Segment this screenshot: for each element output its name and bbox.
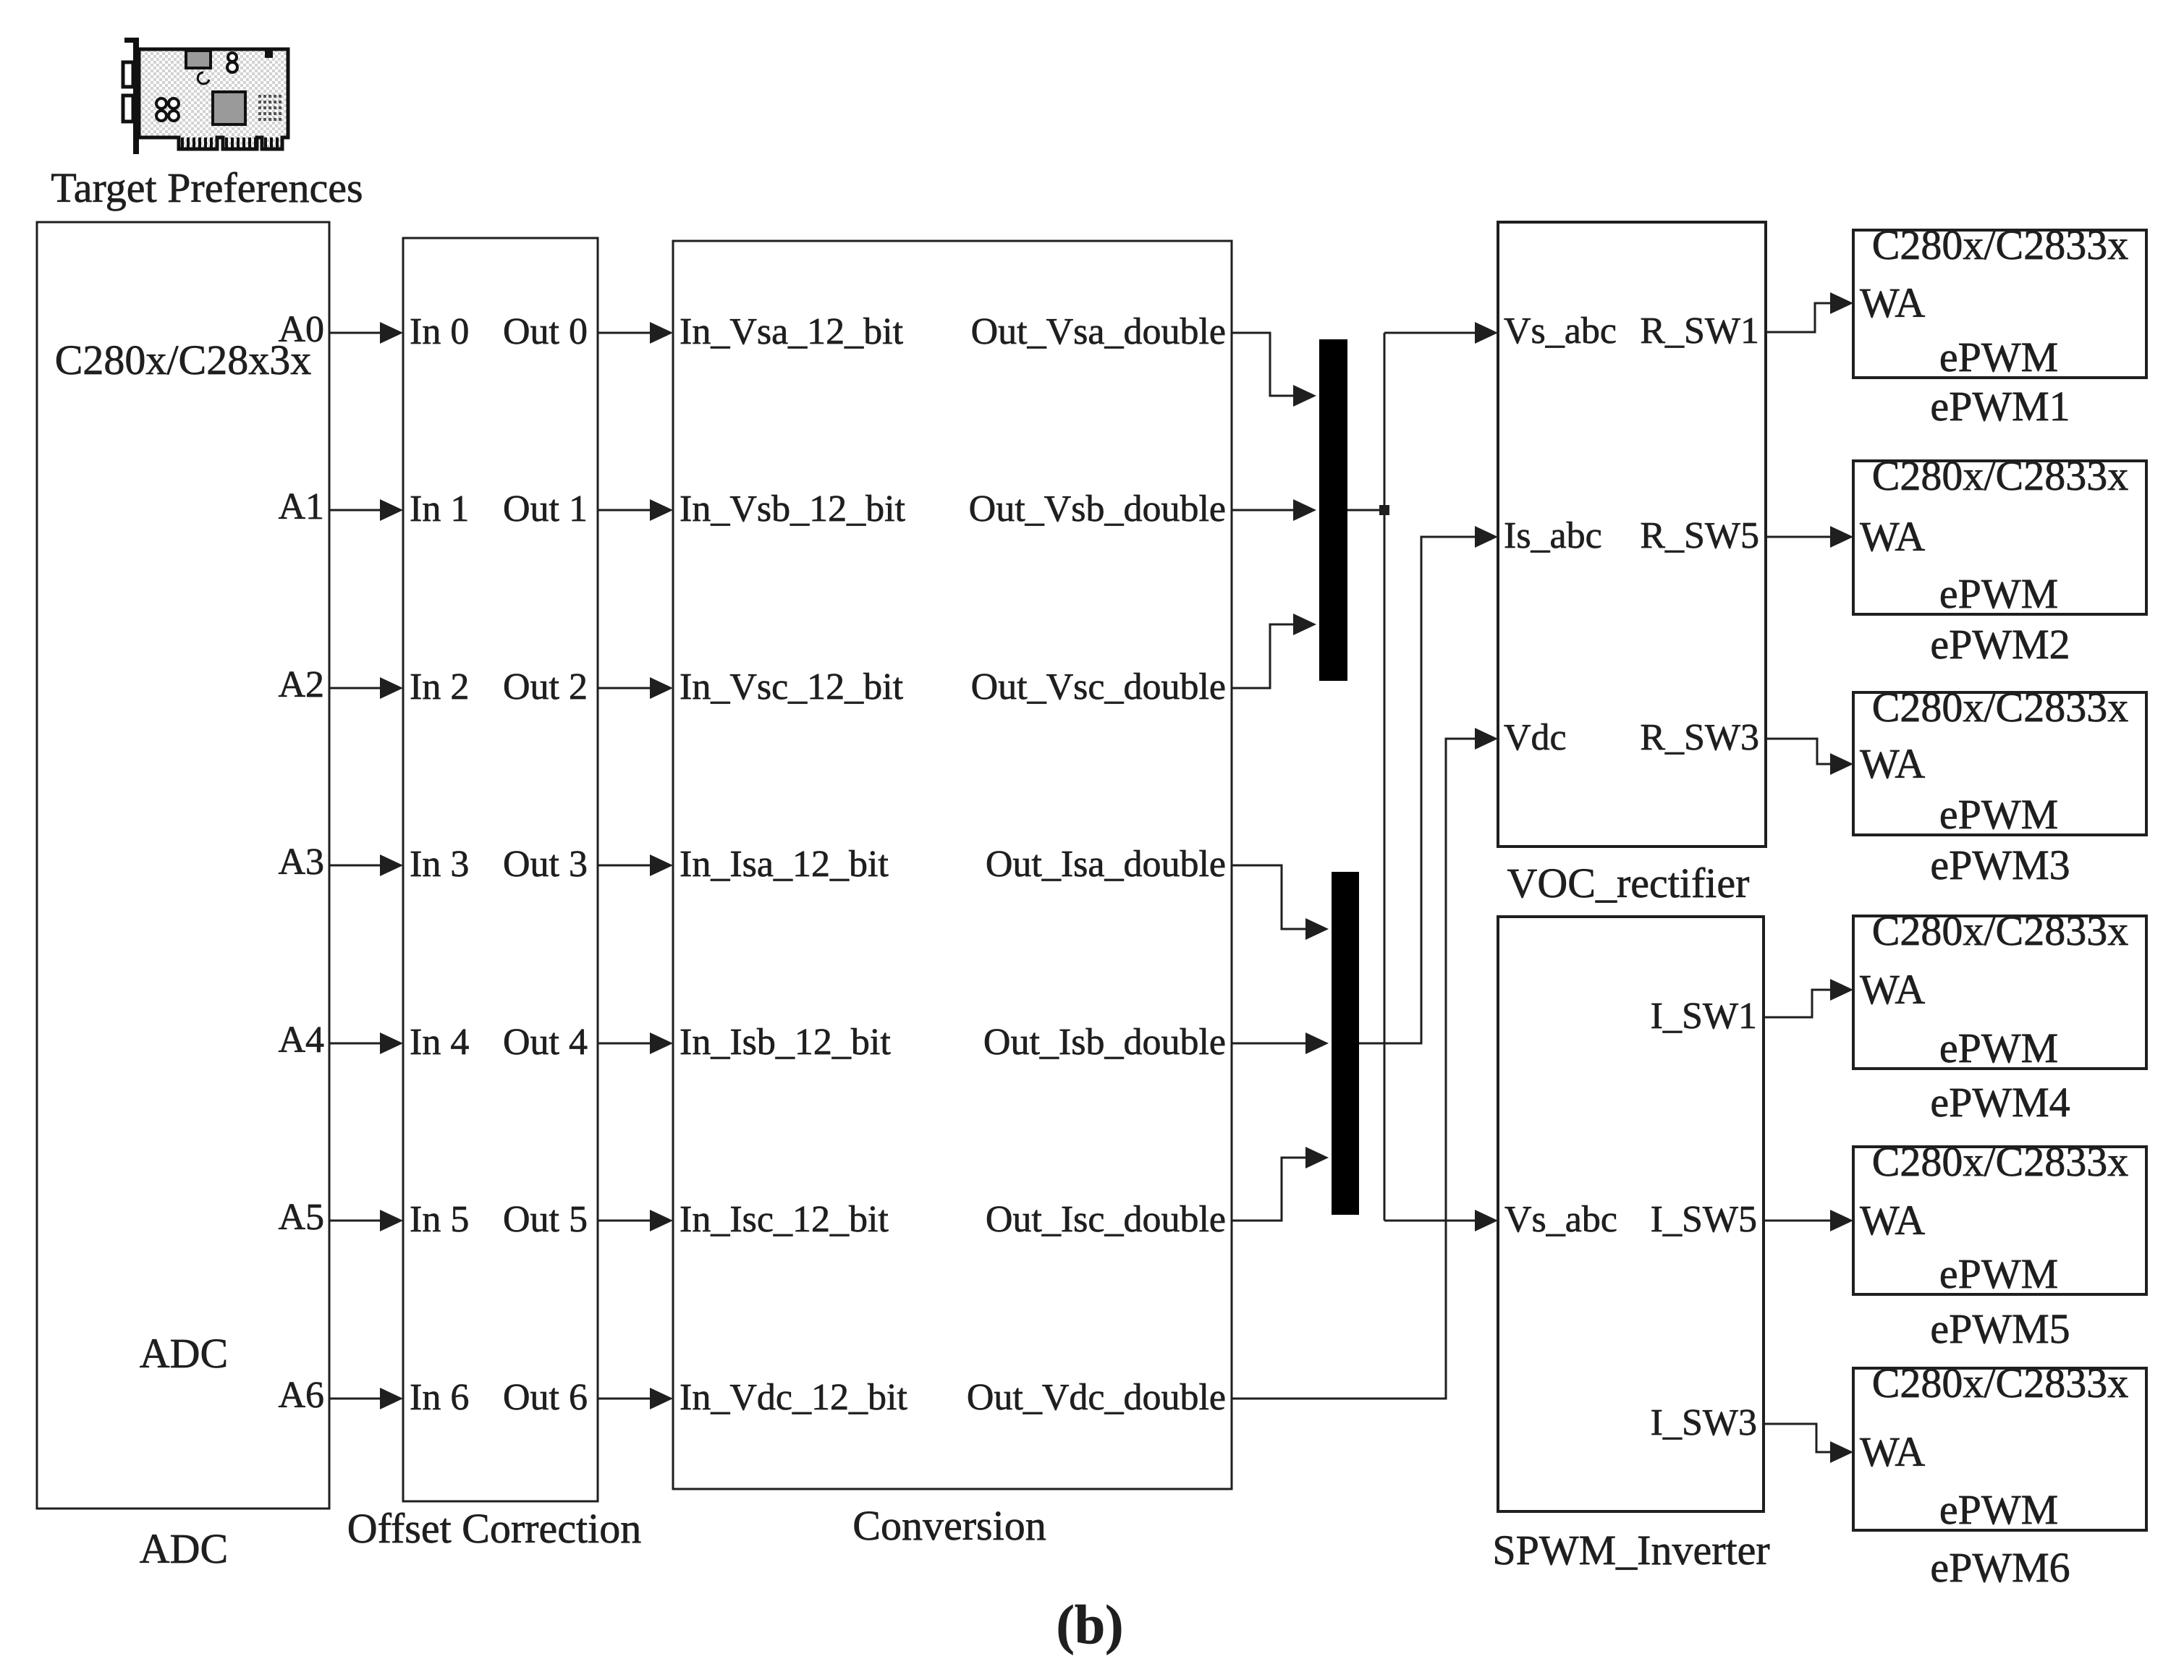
svg-text:In_Isa_12_bit: In_Isa_12_bit [680,844,889,885]
svg-text:C280x/C2833x: C280x/C2833x [1872,221,2129,268]
block ePWM2 (C280x/C2833x ePWM) [1853,461,2146,614]
svg-text:Out_Vdc_double: Out_Vdc_double [967,1377,1226,1418]
svg-text:A5: A5 [278,1197,324,1238]
block ePWM1 (C280x/C2833x ePWM) [1853,230,2146,378]
svg-text:A4: A4 [278,1019,324,1061]
wire Out 6 Offset->Conversion [598,1398,650,1400]
svg-text:SPWM_Inverter: SPWM_Inverter [1492,1527,1769,1574]
wire Out_Isa_double -> mux2 in1 [1232,865,1305,929]
svg-text:VOC_rectifier: VOC_rectifier [1507,860,1750,907]
svg-text:A2: A2 [278,664,324,705]
svg-text:Vs_abc: Vs_abc [1504,1199,1617,1240]
svg-text:WA: WA [1860,279,1925,326]
svg-text:In_Vsc_12_bit: In_Vsc_12_bit [680,666,904,708]
block Conversion [673,241,1232,1489]
block ePWM6 (C280x/C2833x ePWM) [1853,1368,2146,1530]
svg-text:In_Isb_12_bit: In_Isb_12_bit [680,1022,891,1063]
svg-text:In 5: In 5 [410,1199,469,1240]
svg-text:In 4: In 4 [410,1022,469,1063]
wire A3 ADC->Offset [329,865,380,867]
svg-text:I_SW1: I_SW1 [1651,996,1757,1037]
svg-text:Out 6: Out 6 [503,1377,588,1418]
wire A1 ADC->Offset [329,509,380,512]
Target Preferences block icon (PCI card) [123,38,288,154]
wire Out 1 Offset->Conversion [598,509,650,512]
wire I_SW3 -> ePWM6 WA [1764,1424,1830,1452]
svg-text:In_Isc_12_bit: In_Isc_12_bit [680,1199,889,1240]
svg-text:Out_Isa_double: Out_Isa_double [986,844,1226,885]
svg-text:Out_Vsb_double: Out_Vsb_double [969,488,1226,530]
block Offset Correction [403,238,598,1501]
svg-text:Out 1: Out 1 [503,488,588,530]
svg-text:Out 5: Out 5 [503,1199,588,1240]
svg-text:Is_abc: Is_abc [1504,515,1602,556]
wire Out_Isc_double -> mux2 in3 [1232,1158,1305,1221]
svg-text:Target Preferences: Target Preferences [51,164,363,211]
wire A0 ADC->Offset [329,332,380,334]
junction on mux1 output [1379,505,1389,515]
svg-text:ePWM: ePWM [1939,334,2058,381]
svg-text:A0: A0 [278,309,324,350]
svg-text:Out 4: Out 4 [503,1022,588,1063]
svg-text:Out_Isb_double: Out_Isb_double [983,1022,1226,1063]
svg-text:C280x/C28x3x: C280x/C28x3x [55,336,312,383]
svg-text:ePWM: ePWM [1939,791,2058,838]
svg-text:ePWM: ePWM [1939,570,2058,617]
wire Out_Vdc_double -> VOC Vdc [1232,739,1475,1399]
mux 2 (Is mux) [1332,872,1359,1215]
wire Out 0 Offset->Conversion [598,332,650,334]
svg-text:Out 2: Out 2 [503,666,588,708]
svg-text:ADC: ADC [140,1525,228,1572]
svg-text:In 2: In 2 [410,666,469,708]
svg-text:ePWM2: ePWM2 [1930,621,2070,668]
svg-text:Conversion: Conversion [852,1502,1046,1549]
svg-text:A3: A3 [278,841,324,883]
svg-text:C280x/C2833x: C280x/C2833x [1872,1359,2129,1407]
wire branch mux1 -> VOC Vs_abc [1384,332,1475,334]
svg-text:ePWM5: ePWM5 [1930,1305,2070,1352]
wire Out_Isb_double -> mux2 in2 [1232,1043,1305,1045]
block ePWM5 (C280x/C2833x ePWM) [1853,1147,2146,1294]
svg-text:C280x/C2833x: C280x/C2833x [1872,452,2129,499]
wire R_SW5 -> ePWM2 WA [1766,536,1830,538]
svg-text:I_SW5: I_SW5 [1651,1199,1757,1240]
wire Out 3 Offset->Conversion [598,865,650,867]
wire A4 ADC->Offset [329,1043,380,1045]
svg-text:WA: WA [1860,1197,1925,1244]
block SPWM_Inverter [1498,917,1764,1511]
svg-text:WA: WA [1860,966,1925,1013]
wire Out_Vsb_double -> mux1 in2 [1232,509,1293,512]
wire Out_Vsc_double -> mux1 in3 [1232,624,1293,688]
wire branch mux1 -> SPWM Vs_abc [1384,1220,1475,1222]
svg-text:ePWM6: ePWM6 [1930,1544,2070,1591]
svg-text:A6: A6 [278,1375,324,1416]
wire I_SW5 -> ePWM5 WA [1764,1220,1830,1222]
block ePWM3 (C280x/C2833x ePWM) [1853,692,2146,835]
svg-text:R_SW3: R_SW3 [1640,717,1759,758]
svg-text:In_Vsb_12_bit: In_Vsb_12_bit [680,488,906,530]
svg-text:In 3: In 3 [410,844,469,885]
block VOC_rectifier [1498,222,1766,847]
wire R_SW1 -> ePWM1 WA [1766,303,1830,332]
wire A2 ADC->Offset [329,687,380,690]
svg-text:In_Vdc_12_bit: In_Vdc_12_bit [680,1377,907,1418]
wire R_SW3 -> ePWM3 WA [1766,739,1830,764]
svg-text:ePWM3: ePWM3 [1930,841,2070,888]
svg-text:Offset Correction: Offset Correction [347,1505,641,1552]
svg-text:A1: A1 [278,486,324,527]
wire I_SW1 -> ePWM4 WA [1764,990,1830,1017]
wire Out_Vsa_double -> mux1 in1 [1232,333,1293,396]
svg-text:C280x/C2833x: C280x/C2833x [1872,1138,2129,1185]
svg-text:In 0: In 0 [410,311,469,352]
svg-text:In_Vsa_12_bit: In_Vsa_12_bit [680,311,904,352]
wire Out 5 Offset->Conversion [598,1220,650,1222]
svg-text:R_SW1: R_SW1 [1640,310,1759,352]
wire Out 4 Offset->Conversion [598,1043,650,1045]
block ePWM4 (C280x/C2833x ePWM) [1853,916,2146,1069]
svg-text:ePWM: ePWM [1939,1250,2058,1297]
mux 1 (Vs mux) [1319,339,1347,681]
svg-text:Out 3: Out 3 [503,844,588,885]
svg-text:WA: WA [1860,1428,1925,1475]
svg-text:ePWM: ePWM [1939,1486,2058,1533]
svg-text:Out_Vsa_double: Out_Vsa_double [971,311,1226,352]
svg-text:Out_Isc_double: Out_Isc_double [986,1199,1226,1240]
wire Out 2 Offset->Conversion [598,687,650,690]
svg-text:C280x/C2833x: C280x/C2833x [1872,684,2129,731]
svg-text:Out 0: Out 0 [503,311,588,352]
svg-text:Vs_abc: Vs_abc [1504,310,1617,352]
wire A5 ADC->Offset [329,1220,380,1222]
svg-text:ePWM1: ePWM1 [1930,383,2070,430]
svg-text:Vdc: Vdc [1504,717,1567,758]
svg-text:ePWM: ePWM [1939,1024,2058,1072]
svg-text:C280x/C2833x: C280x/C2833x [1872,907,2129,954]
svg-text:R_SW5: R_SW5 [1640,515,1759,556]
block ADC (C280x/C28x3x ADC) [37,222,329,1509]
svg-text:(b): (b) [1057,1595,1124,1655]
svg-text:WA: WA [1860,740,1925,787]
wire A6 ADC->Offset [329,1398,380,1400]
svg-text:I_SW3: I_SW3 [1651,1402,1757,1443]
wire mux2 -> VOC Is_abc [1359,537,1475,1043]
svg-text:ADC: ADC [140,1330,228,1377]
svg-text:ePWM4: ePWM4 [1930,1079,2070,1126]
svg-text:In 6: In 6 [410,1377,469,1418]
svg-text:Out_Vsc_double: Out_Vsc_double [971,666,1226,708]
svg-text:WA: WA [1860,513,1925,560]
svg-text:In 1: In 1 [410,488,469,530]
wire mux1 -> VOC Vs_abc and SPWM Vs_abc trunk [1347,509,1384,512]
